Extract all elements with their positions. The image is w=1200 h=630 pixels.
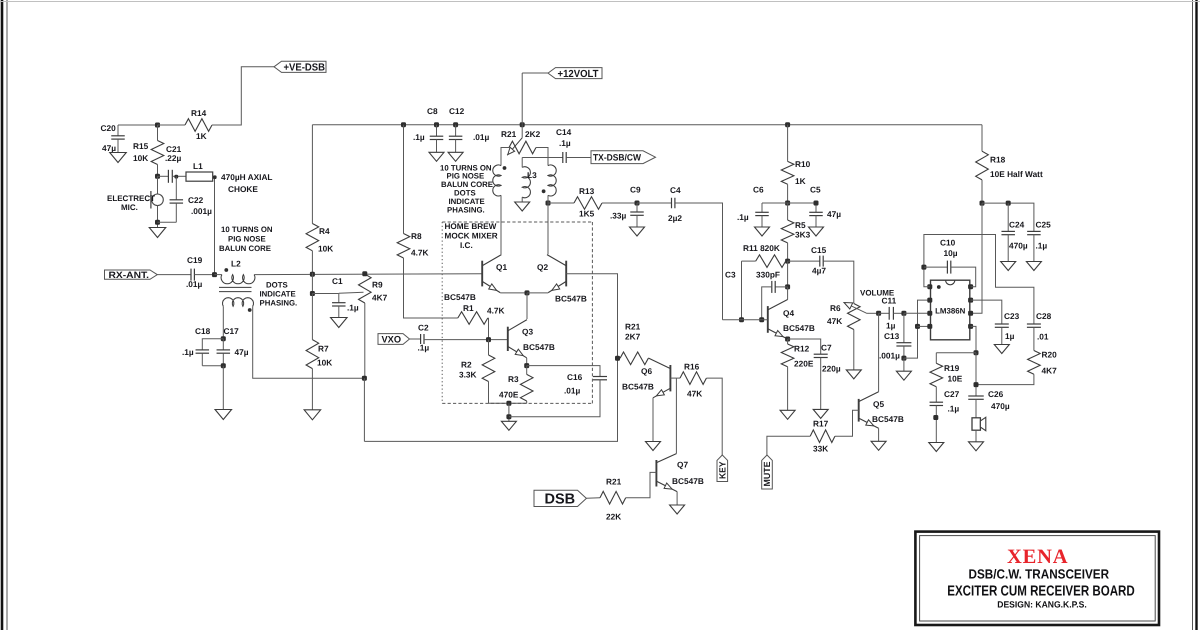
phasing dot xyxy=(248,308,252,312)
pin 2 xyxy=(927,298,932,303)
node xyxy=(362,376,367,381)
pin 7 xyxy=(968,298,973,303)
svg-text:TX-DSB/CW: TX-DSB/CW xyxy=(593,153,641,163)
ground xyxy=(429,152,444,161)
svg-text:C24: C24 xyxy=(1009,220,1025,230)
wire +12V rail xyxy=(312,124,982,126)
wire xyxy=(157,165,159,177)
node xyxy=(155,220,160,225)
svg-text:DOTS: DOTS xyxy=(266,281,288,290)
svg-text:PIG NOSE: PIG NOSE xyxy=(228,235,266,244)
wire xyxy=(741,261,743,320)
svg-text:R21: R21 xyxy=(501,129,517,139)
svg-text:4.7K: 4.7K xyxy=(411,248,429,258)
transformer L2 core xyxy=(219,286,252,288)
wire xyxy=(787,184,789,203)
svg-text:R12: R12 xyxy=(794,344,810,354)
node xyxy=(785,201,790,206)
svg-text:.1µ: .1µ xyxy=(1036,241,1048,251)
wire xyxy=(904,312,928,314)
wire xyxy=(787,287,789,300)
ground xyxy=(780,410,795,419)
svg-text:220µ: 220µ xyxy=(822,364,841,374)
wire supply to IC xyxy=(971,203,982,313)
svg-text:MOCK MIXER: MOCK MIXER xyxy=(445,232,498,241)
ground xyxy=(994,345,1009,354)
svg-text:R3: R3 xyxy=(508,374,519,384)
node xyxy=(1006,201,1011,206)
wire xyxy=(675,378,677,454)
ground xyxy=(149,228,166,238)
svg-text:1K: 1K xyxy=(196,131,207,141)
svg-text:2K2: 2K2 xyxy=(525,129,541,139)
wire xyxy=(762,202,816,204)
svg-text:DSB: DSB xyxy=(545,492,576,508)
resistor R17 xyxy=(810,430,835,443)
svg-text:10µ: 10µ xyxy=(944,248,958,258)
svg-text:10K: 10K xyxy=(317,358,332,368)
svg-text:.01µ: .01µ xyxy=(473,132,490,142)
wire C3 line xyxy=(675,203,723,320)
svg-text:L3: L3 xyxy=(527,170,537,180)
svg-text:3K3: 3K3 xyxy=(795,230,811,240)
node xyxy=(506,414,511,419)
svg-text:22K: 22K xyxy=(606,512,621,522)
svg-text:C6: C6 xyxy=(753,185,764,195)
svg-text:.1µ: .1µ xyxy=(737,212,749,222)
node xyxy=(739,317,744,322)
wire Q4 base xyxy=(723,319,768,321)
flag TX-DSB/CW xyxy=(591,151,656,164)
svg-text:.01: .01 xyxy=(1037,332,1049,342)
pin 1 xyxy=(927,284,932,289)
svg-text:R13: R13 xyxy=(579,186,595,196)
svg-text:C20: C20 xyxy=(101,123,117,133)
wire xyxy=(404,258,458,318)
wire xyxy=(364,303,366,378)
svg-text:470µH AXIAL: 470µH AXIAL xyxy=(221,172,273,182)
svg-text:.01µ: .01µ xyxy=(186,279,203,289)
resistor R21 2K2 trimmer xyxy=(509,141,536,154)
wire xyxy=(975,430,977,442)
node xyxy=(434,122,439,127)
node xyxy=(155,174,160,179)
resistor R3 xyxy=(526,366,528,375)
capacitor C11 xyxy=(879,312,890,314)
transistor Q1 xyxy=(481,261,483,287)
svg-text:BC547B: BC547B xyxy=(523,342,555,352)
svg-text:330pF: 330pF xyxy=(756,270,780,280)
svg-text:33K: 33K xyxy=(813,444,828,454)
capacitor C2 xyxy=(410,338,421,340)
svg-text:+12VOLT: +12VOLT xyxy=(558,69,600,80)
svg-text:INDICATE: INDICATE xyxy=(260,290,296,299)
wire xyxy=(637,202,672,204)
node xyxy=(974,382,979,387)
svg-text:C28: C28 xyxy=(1036,311,1052,321)
ground xyxy=(331,318,348,328)
wire xyxy=(118,124,158,126)
svg-text:BC547B: BC547B xyxy=(672,476,704,486)
svg-text:2K7: 2K7 xyxy=(625,332,641,342)
svg-text:R16: R16 xyxy=(684,362,700,372)
capacitor C16 xyxy=(527,366,600,377)
svg-text:C22: C22 xyxy=(188,195,204,205)
svg-text:4µ7: 4µ7 xyxy=(812,266,826,276)
wire xyxy=(626,472,657,497)
ground xyxy=(110,153,127,163)
svg-text:LM386N: LM386N xyxy=(935,306,966,315)
node xyxy=(785,122,790,127)
svg-text:C26: C26 xyxy=(988,389,1004,399)
wire xyxy=(526,293,528,319)
svg-text:C23: C23 xyxy=(1004,311,1020,321)
wire xyxy=(853,330,855,370)
svg-text:R14: R14 xyxy=(191,108,207,118)
wire xyxy=(918,325,929,327)
potentiometer R6 volume xyxy=(848,304,861,330)
svg-text:470E: 470E xyxy=(499,390,519,400)
svg-text:C15: C15 xyxy=(811,245,827,255)
wire xyxy=(521,73,523,125)
capacitor C18 xyxy=(202,339,223,350)
capacitor C15 xyxy=(788,260,820,262)
capacitor C22 xyxy=(158,221,177,223)
trimmer wiper xyxy=(507,138,522,155)
wire xyxy=(489,402,527,404)
resistor R15 xyxy=(157,125,159,141)
svg-text:L2: L2 xyxy=(231,259,241,269)
node xyxy=(524,363,529,368)
svg-text:BC547B: BC547B xyxy=(555,294,587,304)
svg-text:47µ: 47µ xyxy=(102,143,116,153)
svg-text:MIC.: MIC. xyxy=(121,203,138,212)
svg-text:.1µ: .1µ xyxy=(418,343,430,353)
wire xyxy=(501,148,509,166)
svg-text:C3: C3 xyxy=(725,270,736,280)
capacitor C20 xyxy=(117,125,119,136)
wire xyxy=(903,358,905,371)
capacitor C4 xyxy=(671,198,673,209)
node xyxy=(520,122,525,127)
svg-text:C10: C10 xyxy=(940,238,956,248)
transformer L3 middle winding xyxy=(522,167,530,198)
capacitor C25 xyxy=(1027,230,1041,232)
node xyxy=(635,201,640,206)
capacitor C5 xyxy=(815,203,817,212)
resistor R12 xyxy=(787,339,789,344)
capacitor C8 xyxy=(436,125,438,137)
ground xyxy=(846,370,861,379)
svg-text:1µ: 1µ xyxy=(886,321,896,331)
svg-text:1µ: 1µ xyxy=(1005,331,1015,341)
capacitor C7 xyxy=(788,339,821,354)
svg-text:VXO: VXO xyxy=(382,334,402,345)
wire xyxy=(500,195,502,254)
svg-text:CHOKE: CHOKE xyxy=(228,184,258,194)
pot wiper arrow xyxy=(867,312,879,314)
capacitor C24 xyxy=(1007,203,1009,231)
svg-text:C17: C17 xyxy=(224,326,240,336)
svg-text:R20: R20 xyxy=(1042,350,1058,360)
svg-text:C4: C4 xyxy=(670,185,681,195)
transformer L2 primary xyxy=(221,275,255,284)
capacitor 330pF xyxy=(775,286,787,288)
resistor R21 2K7 xyxy=(620,352,648,365)
ground xyxy=(929,443,944,452)
svg-text:Q6: Q6 xyxy=(641,366,652,376)
svg-text:.1µ: .1µ xyxy=(182,347,194,357)
svg-text:R15: R15 xyxy=(133,141,149,151)
svg-text:ELECTRECT: ELECTRECT xyxy=(107,194,155,203)
ground xyxy=(521,197,523,202)
svg-text:10K: 10K xyxy=(133,153,148,163)
ground xyxy=(630,227,645,236)
svg-text:47K: 47K xyxy=(687,389,702,399)
capacitor C14 xyxy=(562,152,564,163)
wire xyxy=(787,367,789,411)
speaker xyxy=(972,418,980,430)
node xyxy=(785,337,790,342)
svg-text:4K7: 4K7 xyxy=(1042,366,1058,376)
svg-text:C12: C12 xyxy=(449,106,465,116)
svg-text:C25: C25 xyxy=(1036,220,1052,230)
svg-text:.22µ: .22µ xyxy=(165,153,182,163)
svg-text:470µ: 470µ xyxy=(991,401,1010,411)
capacitor C12 xyxy=(455,125,457,137)
wire xyxy=(982,203,1034,231)
svg-text:R5: R5 xyxy=(795,220,806,230)
wire xyxy=(212,67,274,125)
ground xyxy=(755,227,770,236)
node xyxy=(876,311,881,316)
ground xyxy=(448,152,463,161)
svg-text:XENA: XENA xyxy=(1007,546,1070,568)
node xyxy=(401,122,406,127)
svg-text:PHASING.: PHASING. xyxy=(260,299,298,308)
svg-text:C8: C8 xyxy=(427,106,438,116)
resistor R9 xyxy=(339,292,364,293)
resistor R21 22K xyxy=(586,497,600,500)
svg-text:Q4: Q4 xyxy=(783,308,794,318)
svg-text:Q7: Q7 xyxy=(677,460,688,470)
svg-text:R1: R1 xyxy=(463,303,474,313)
resistor R2 xyxy=(482,355,495,382)
wire xyxy=(547,195,549,254)
flag +VE-DSB xyxy=(274,61,326,72)
wire xyxy=(521,158,523,168)
capacitor C23 xyxy=(971,300,1002,324)
flag +12VOLT xyxy=(548,68,602,79)
svg-text:3.3K: 3.3K xyxy=(459,370,477,380)
phasing dot xyxy=(503,166,507,170)
svg-text:.1µ: .1µ xyxy=(948,404,960,414)
ground xyxy=(215,410,232,420)
svg-text:R11 820K: R11 820K xyxy=(743,243,780,253)
ground xyxy=(304,410,321,420)
ground xyxy=(501,421,516,430)
wire xyxy=(904,300,928,358)
inductor L1 470uH axial choke xyxy=(186,172,213,181)
ground xyxy=(646,442,661,451)
node xyxy=(814,201,819,206)
svg-text:R19: R19 xyxy=(944,363,960,373)
resistor R5 xyxy=(787,203,789,220)
wire xyxy=(676,492,678,505)
svg-text:1K5: 1K5 xyxy=(579,209,595,219)
electret microphone xyxy=(157,176,159,194)
svg-text:R17: R17 xyxy=(813,419,829,429)
svg-text:.1µ: .1µ xyxy=(413,132,425,142)
wire xyxy=(311,251,313,273)
node xyxy=(901,356,906,361)
wire xyxy=(158,124,186,126)
svg-text:BC547B: BC547B xyxy=(872,414,904,424)
wire xyxy=(767,436,810,455)
svg-text:R21: R21 xyxy=(625,322,641,332)
wire xyxy=(500,292,527,294)
flag MUTE xyxy=(762,455,773,489)
node xyxy=(362,271,367,276)
capacitor C10 loop xyxy=(924,235,1034,325)
flag KEY xyxy=(717,455,728,482)
svg-text:.001µ: .001µ xyxy=(191,206,212,216)
transistor Q6 xyxy=(669,365,671,391)
wire xyxy=(652,398,654,442)
phasing dot xyxy=(224,268,228,272)
svg-text:EXCITER CUM RECEIVER BOARD: EXCITER CUM RECEIVER BOARD xyxy=(947,584,1135,600)
node xyxy=(785,259,790,264)
wire xyxy=(878,428,880,441)
wire xyxy=(213,177,215,275)
wire Q5 collector xyxy=(878,313,880,391)
ground xyxy=(813,409,828,418)
svg-text:Q5: Q5 xyxy=(873,399,884,409)
svg-text:BALUN CORE: BALUN CORE xyxy=(219,244,271,253)
resistor R20 xyxy=(1028,351,1041,375)
svg-text:R21: R21 xyxy=(606,477,622,487)
pin 8 xyxy=(968,284,973,289)
svg-text:1K: 1K xyxy=(795,176,806,186)
svg-text:R2: R2 xyxy=(461,360,472,370)
wire xyxy=(202,365,223,367)
svg-text:220E: 220E xyxy=(794,359,814,369)
wire Q2 base loop xyxy=(364,274,617,442)
flag DSB xyxy=(534,490,586,506)
svg-text:HOME BREW: HOME BREW xyxy=(445,222,497,231)
capacitor C21 xyxy=(158,175,169,177)
node xyxy=(506,401,511,406)
wire xyxy=(548,202,574,204)
svg-text:2µ2: 2µ2 xyxy=(668,213,682,223)
svg-text:10E Half Watt: 10E Half Watt xyxy=(990,169,1043,179)
capacitor C10 xyxy=(924,266,948,268)
transformer L3 right winding xyxy=(548,165,556,196)
node xyxy=(901,311,906,316)
wire xyxy=(222,366,224,410)
resistor R16 xyxy=(676,377,680,379)
svg-text:47µ: 47µ xyxy=(235,347,249,357)
wire xyxy=(976,374,1034,384)
wire xyxy=(936,352,976,354)
svg-text:R10: R10 xyxy=(795,159,811,169)
svg-text:10E: 10E xyxy=(948,374,963,384)
resistor R8 xyxy=(403,125,405,234)
svg-text:MUTE: MUTE xyxy=(762,462,772,487)
ground xyxy=(969,442,984,451)
svg-text:L1: L1 xyxy=(193,161,203,171)
capacitor C28 xyxy=(1027,323,1041,325)
svg-text:470µ: 470µ xyxy=(1009,241,1028,251)
wire xyxy=(975,353,977,396)
resistor R14 xyxy=(185,119,212,132)
capacitor C13 xyxy=(903,313,905,342)
resistor R11 820K xyxy=(742,260,756,262)
pin 4 xyxy=(927,324,932,329)
node xyxy=(221,363,226,368)
wire xyxy=(522,72,548,74)
wire xyxy=(526,358,528,366)
node xyxy=(615,356,620,361)
transformer L2 secondary xyxy=(223,298,254,307)
wire xyxy=(521,125,523,138)
phasing dot xyxy=(542,189,546,193)
svg-text:DESIGN: KANG.K.P.S.: DESIGN: KANG.K.P.S. xyxy=(997,600,1087,610)
capacitor C27 xyxy=(935,387,937,403)
resistor R19 xyxy=(935,353,937,364)
wire xyxy=(670,377,676,379)
ground xyxy=(1026,262,1041,271)
svg-text:DSB/C.W. TRANSCEIVER: DSB/C.W. TRANSCEIVER xyxy=(969,567,1110,582)
resistor R1 xyxy=(458,312,488,325)
svg-text:47µ: 47µ xyxy=(827,209,841,219)
ground xyxy=(670,505,685,514)
node xyxy=(174,175,178,179)
wire xyxy=(787,243,789,261)
node xyxy=(310,291,315,296)
svg-text:C19: C19 xyxy=(187,255,203,265)
node xyxy=(486,337,491,342)
node xyxy=(212,272,217,277)
svg-text:C13: C13 xyxy=(884,331,900,341)
svg-text:C18: C18 xyxy=(195,326,211,336)
node xyxy=(525,290,530,295)
transistor Q3 xyxy=(507,327,509,351)
svg-text:Q2: Q2 xyxy=(537,262,548,272)
svg-text:R9: R9 xyxy=(372,280,383,290)
svg-text:BC547B: BC547B xyxy=(783,323,815,333)
capacitor C26 xyxy=(968,395,984,397)
ground xyxy=(809,227,824,236)
capacitor C1 xyxy=(312,293,338,295)
capacitor C6 xyxy=(761,203,763,212)
svg-text:R4: R4 xyxy=(319,226,330,236)
ground xyxy=(871,441,886,450)
node xyxy=(915,324,920,329)
wire xyxy=(787,261,789,287)
svg-text:10 TURNS ON: 10 TURNS ON xyxy=(221,225,273,234)
node xyxy=(546,201,551,206)
flag RX-ANT xyxy=(105,270,158,279)
svg-text:47K: 47K xyxy=(827,316,842,326)
wire xyxy=(536,148,548,166)
svg-text:10K: 10K xyxy=(318,244,333,254)
pin 5 xyxy=(968,324,973,329)
wire xyxy=(424,339,508,341)
pin 6 xyxy=(968,311,973,316)
capacitor C17 xyxy=(222,339,224,350)
node xyxy=(759,317,764,322)
